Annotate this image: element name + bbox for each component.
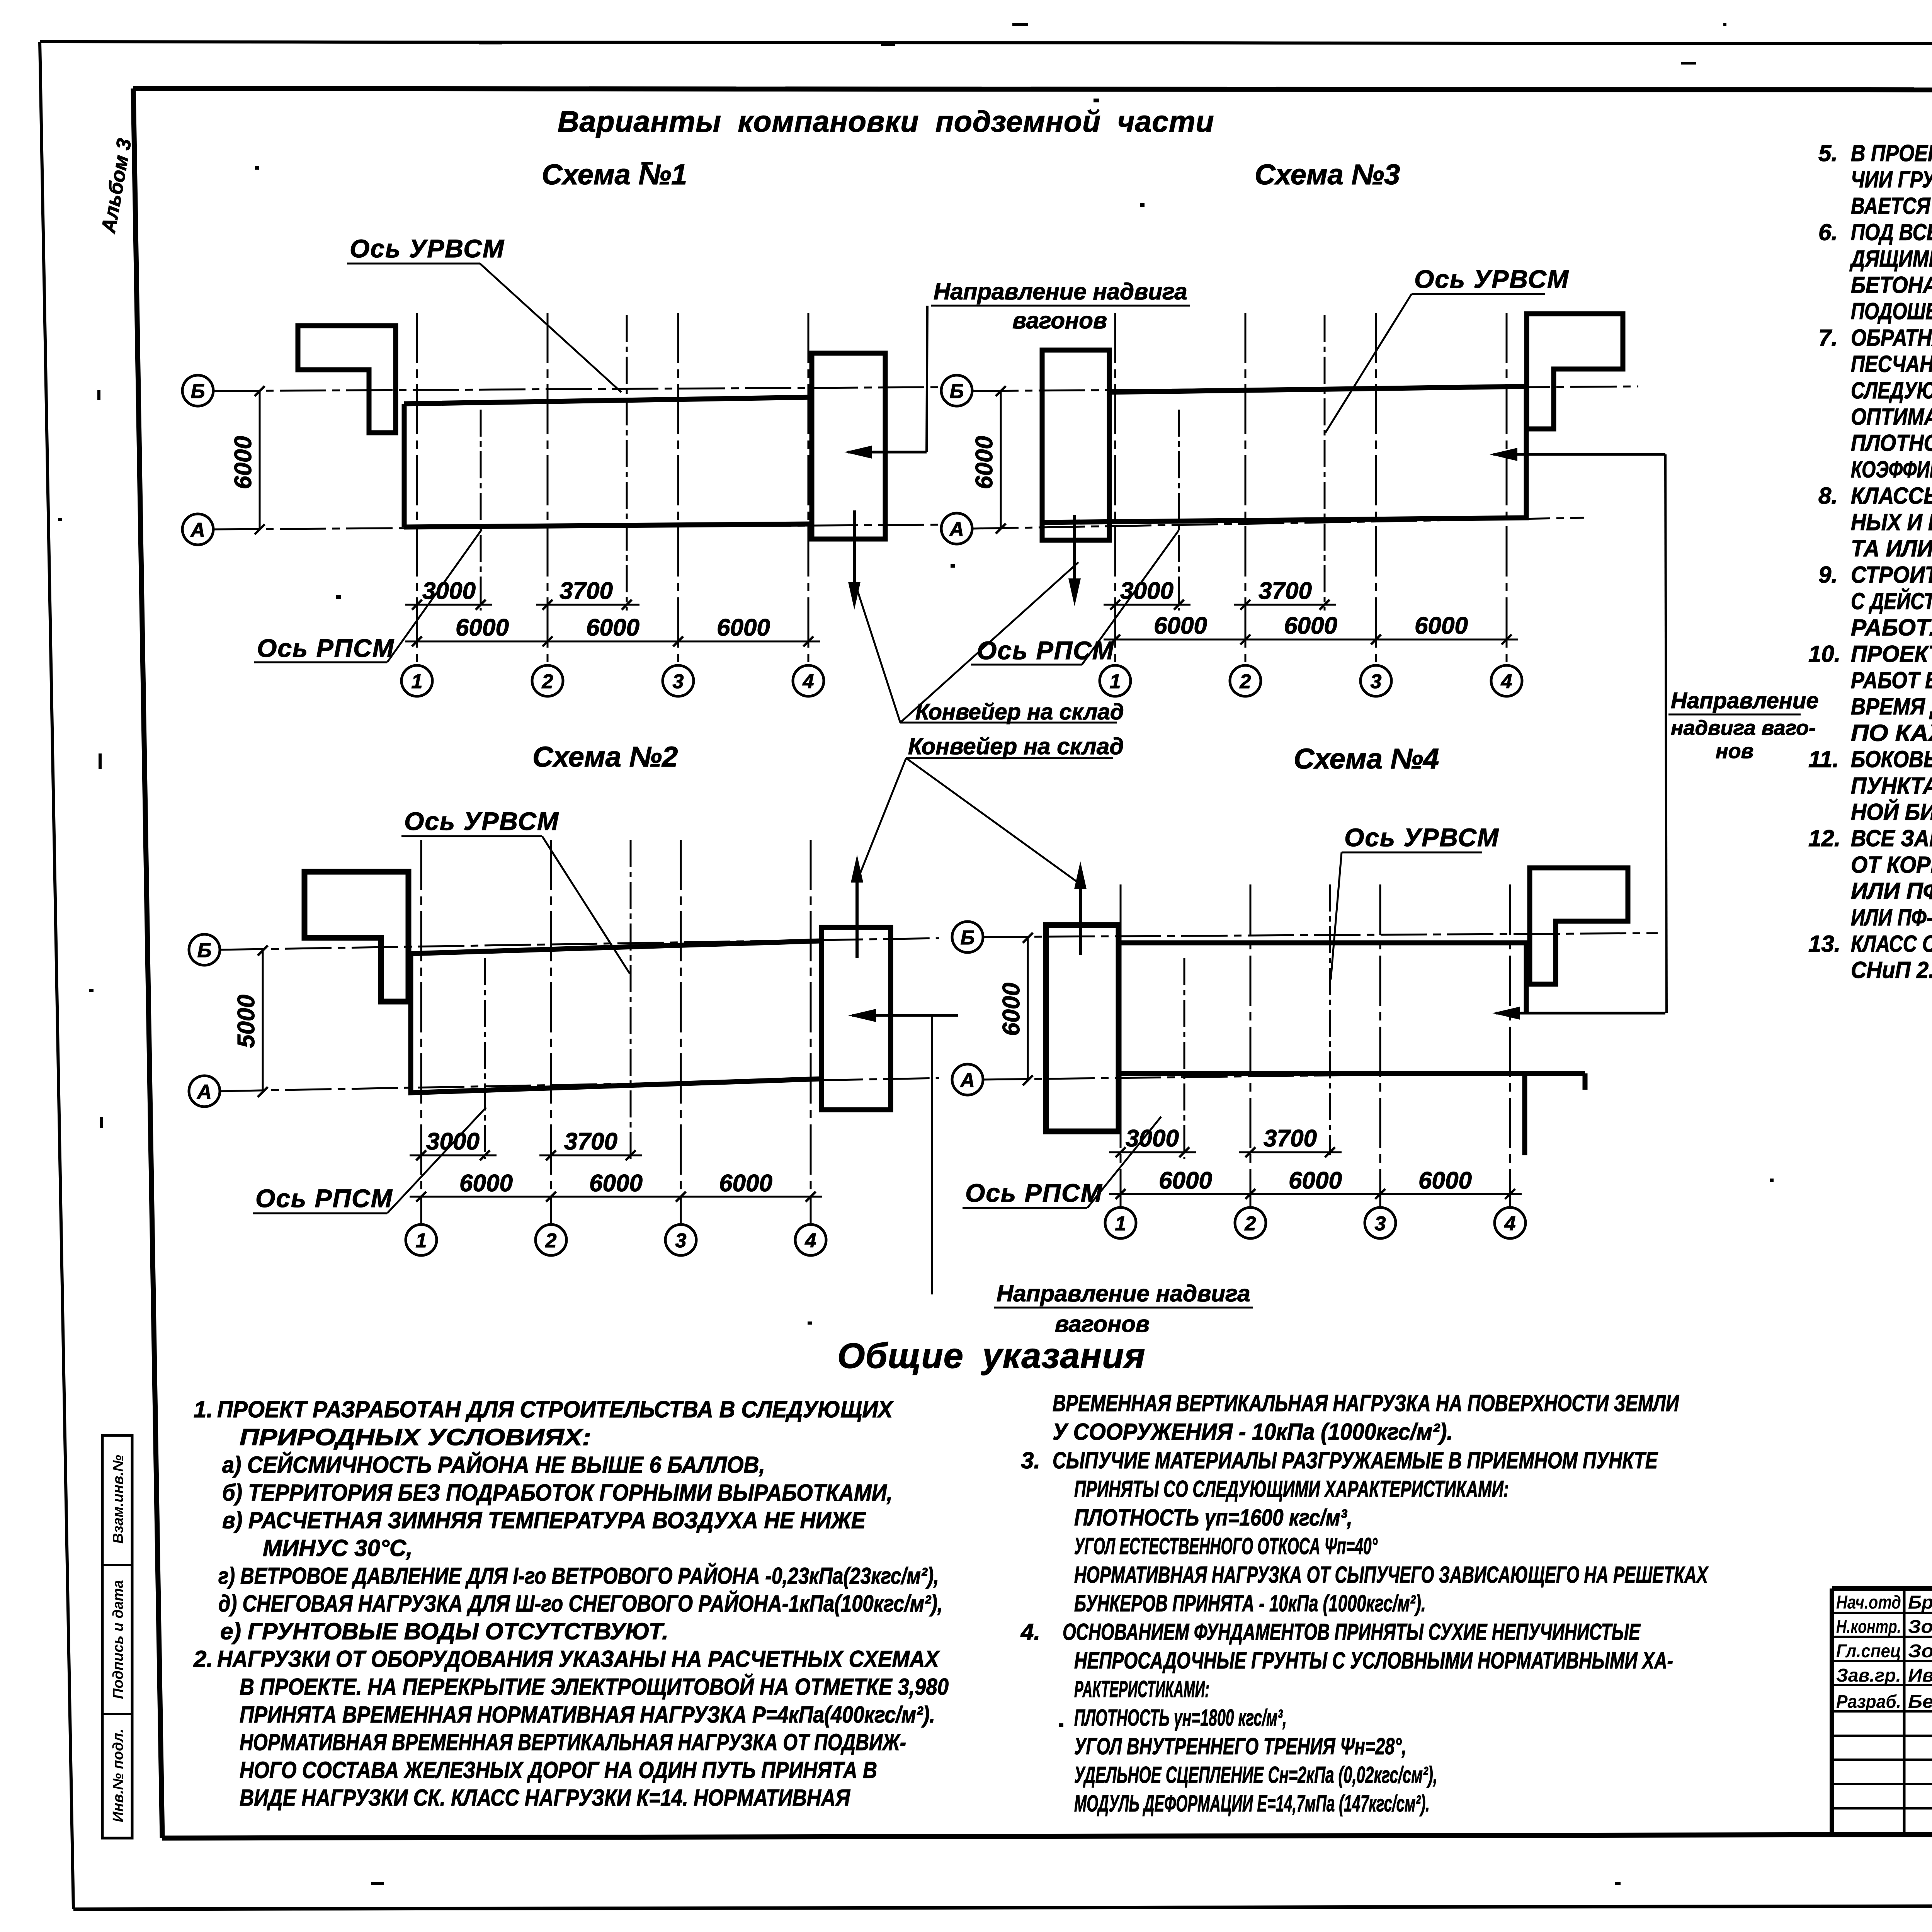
svg-text:МОДУЛЬ ДЕФОРМАЦИИ Е=14,7мПа (1: МОДУЛЬ ДЕФОРМАЦИИ Е=14,7мПа (147кгс/см²)… bbox=[1074, 1791, 1430, 1816]
svg-text:6000: 6000 bbox=[230, 436, 257, 489]
scheme 3 column circle 2 bbox=[1230, 665, 1261, 696]
drawing frame bottom bbox=[162, 1833, 1932, 1838]
svg-text:3700: 3700 bbox=[1264, 1125, 1317, 1152]
svg-text:С ДЕЙСТВУЮЩИМИ ПРАВИЛАМИ ПРОИЗ: С ДЕЙСТВУЮЩИМИ ПРАВИЛАМИ ПРОИЗВОДСТВА И … bbox=[1851, 588, 1932, 614]
svg-text:ДЯЩИМИСЯ В ЗЕМЛЕ, ПРЕДУСМОТРЕТ: ДЯЩИМИСЯ В ЗЕМЛЕ, ПРЕДУСМОТРЕТЬ БЕТОННУЮ… bbox=[1849, 246, 1932, 272]
svg-text:е) ГРУНТОВЫЕ ВОДЫ ОТСУТСТВУЮТ.: е) ГРУНТОВЫЕ ВОДЫ ОТСУТСТВУЮТ. bbox=[220, 1618, 668, 1644]
scheme 4 vertical dim 6000 bbox=[1027, 938, 1029, 1080]
svg-text:д) СНЕГОВАЯ НАГРУЗКА ДЛЯ Ш-го: д) СНЕГОВАЯ НАГРУЗКА ДЛЯ Ш-го СНЕГОВОГО … bbox=[218, 1590, 943, 1617]
scheme 4 column line 4 bbox=[1509, 884, 1511, 1209]
scheme 2 column line 1 bbox=[420, 840, 422, 1226]
title block signature table rows bbox=[1832, 1612, 1932, 1614]
svg-text:8.: 8. bbox=[1818, 483, 1838, 509]
scheme 3 axis A line bbox=[972, 518, 1584, 529]
scheme 1 axis B circle bbox=[182, 375, 213, 406]
title block outline bbox=[1832, 1586, 1932, 1591]
scheme 4 column circle 4 bbox=[1495, 1207, 1526, 1238]
svg-text:1.: 1. bbox=[194, 1396, 213, 1422]
svg-text:ПОДОШВЫ КОНСТРУКЦИЙ НА 100мм В: ПОДОШВЫ КОНСТРУКЦИЙ НА 100мм В КАЖДУЮ СТ… bbox=[1851, 298, 1932, 324]
svg-text:1: 1 bbox=[1115, 1213, 1126, 1235]
svg-text:НОРМАТИВНАЯ НАГРУЗКА ОТ СЫПУЧЕ: НОРМАТИВНАЯ НАГРУЗКА ОТ СЫПУЧЕГО ЗАВИСАЮ… bbox=[1074, 1562, 1709, 1588]
conveyor leader to scheme 1 bbox=[857, 590, 900, 723]
svg-text:РАКТЕРИСТИКАМИ:: РАКТЕРИСТИКАМИ: bbox=[1074, 1676, 1209, 1702]
svg-text:Б: Б bbox=[191, 380, 205, 403]
svg-text:3700: 3700 bbox=[1259, 578, 1312, 604]
scheme 2 column circle 3 bbox=[665, 1225, 696, 1255]
svg-text:вагонов: вагонов bbox=[1012, 308, 1107, 333]
svg-text:Ось УРВСМ: Ось УРВСМ bbox=[1414, 265, 1569, 293]
svg-text:6000: 6000 bbox=[719, 1170, 772, 1197]
scheme 4 bottom-right step bbox=[1522, 1073, 1527, 1155]
svg-text:6000: 6000 bbox=[1159, 1167, 1212, 1194]
svg-text:ВИДЕ НАГРУЗКИ СК. КЛАСС НАГРУЗ: ВИДЕ НАГРУЗКИ СК. КЛАСС НАГРУЗКИ К=14. Н… bbox=[240, 1785, 850, 1811]
scheme 4 axis B line bbox=[982, 933, 1658, 937]
scheme 1 URVSM axis (dash-dot) bbox=[626, 315, 628, 611]
svg-text:Ось РПСМ: Ось РПСМ bbox=[257, 634, 395, 662]
svg-text:Зав.гр.: Зав.гр. bbox=[1836, 1665, 1901, 1686]
scheme 2 axis B line bbox=[219, 938, 939, 950]
svg-text:СЛЕДУЮЩИХ ТРЕБОВАНИЙ:: СЛЕДУЮЩИХ ТРЕБОВАНИЙ: bbox=[1851, 377, 1932, 403]
scheme 2 conveyor arrow bbox=[852, 1014, 958, 1017]
svg-text:МИНУС 30°С,: МИНУС 30°С, bbox=[263, 1535, 413, 1561]
scheme 4 receiving box (left) bbox=[1046, 925, 1119, 1131]
scheme 1 conveyor arrow bbox=[848, 451, 927, 454]
scheme 3 URVSM axis (dash-dot) bbox=[1324, 315, 1326, 611]
svg-text:НОЙ БИТУМНОЙ ГРУНТОВКЕ.: НОЙ БИТУМНОЙ ГРУНТОВКЕ. bbox=[1851, 799, 1932, 825]
scheme 1 dim 3000 bbox=[405, 604, 492, 606]
svg-text:а) СЕЙСМИЧНОСТЬ РАЙОНА НЕ ВЫШЕ: а) СЕЙСМИЧНОСТЬ РАЙОНА НЕ ВЫШЕ 6 БАЛЛОВ, bbox=[222, 1452, 765, 1478]
svg-text:Схема №2: Схема №2 bbox=[532, 741, 678, 773]
scheme 3 wagon direction arrow (down) bbox=[1073, 515, 1076, 587]
svg-text:7.: 7. bbox=[1818, 325, 1838, 350]
svg-text:4: 4 bbox=[803, 670, 814, 693]
scheme 4 column line 2 bbox=[1250, 884, 1252, 1209]
scheme 1 axis B line bbox=[213, 387, 939, 391]
scheme 2 wagon direction arrow (up) bbox=[855, 874, 859, 958]
scheme 2 column circle 4 bbox=[795, 1225, 826, 1255]
scheme 1 vertical dim 6000 bbox=[259, 391, 261, 529]
scheme 3 axis A circle bbox=[941, 513, 972, 544]
sheet outer border left bbox=[40, 42, 73, 1909]
svg-text:Б: Б bbox=[950, 380, 964, 403]
scheme 2 dim 3000 bbox=[410, 1155, 497, 1156]
scheme 2 column line 2 bbox=[550, 840, 552, 1226]
scheme 3 column line 1 bbox=[1114, 313, 1116, 667]
svg-text:6000: 6000 bbox=[998, 983, 1025, 1036]
svg-text:Ось РПСМ: Ось РПСМ bbox=[965, 1179, 1103, 1207]
svg-text:В ПРОЕКТЕ. НА ПЕРЕКРЫТИЕ ЭЛЕКТ: В ПРОЕКТЕ. НА ПЕРЕКРЫТИЕ ЭЛЕКТРОЩИТОВОЙ … bbox=[240, 1673, 949, 1700]
svg-text:6000: 6000 bbox=[1289, 1167, 1342, 1194]
svg-text:А: А bbox=[949, 518, 964, 541]
svg-text:ПОД ВСЕМИ ЖЕЛЕЗОБЕТОННЫМИ МОНО: ПОД ВСЕМИ ЖЕЛЕЗОБЕТОННЫМИ МОНОЛИТНЫМИ КО… bbox=[1851, 219, 1932, 245]
scheme 2 column circle 1 bbox=[406, 1225, 437, 1255]
scheme 4 column circle 3 bbox=[1365, 1207, 1396, 1238]
svg-text:6.: 6. bbox=[1818, 219, 1838, 245]
svg-text:Иванова: Иванова bbox=[1908, 1665, 1932, 1686]
scheme 2 underground walls bbox=[411, 941, 821, 1093]
scheme 3 URVSM leader bbox=[1325, 294, 1412, 433]
svg-text:Разраб.: Разраб. bbox=[1836, 1692, 1901, 1712]
scheme 3 receiving box (left) bbox=[1042, 350, 1109, 540]
leader bottom direction label bbox=[931, 1015, 933, 1294]
scheme 1 receiving box (right) bbox=[812, 353, 885, 539]
scheme 3 column line 4 bbox=[1506, 313, 1508, 667]
svg-text:ПЛОТНОСТЬ γн=1800 кгс/м³,: ПЛОТНОСТЬ γн=1800 кгс/м³, bbox=[1074, 1705, 1287, 1731]
svg-text:4.: 4. bbox=[1020, 1619, 1040, 1645]
svg-text:ВАЕТСЯ В КОНКРЕТНОМ ПРОЕКТЕ С: ВАЕТСЯ В КОНКРЕТНОМ ПРОЕКТЕ С УЧЕТОМ ПРИ… bbox=[1851, 193, 1932, 219]
scheme 4 column line 3 bbox=[1379, 884, 1381, 1209]
scheme 3 axis B line bbox=[972, 386, 1638, 391]
svg-text:УДЕЛЬНОЕ СЦЕПЛЕНИЕ Сн=2кПа (0,: УДЕЛЬНОЕ СЦЕПЛЕНИЕ Сн=2кПа (0,02кгс/см²)… bbox=[1074, 1762, 1437, 1788]
scheme 2 RPSM leader bbox=[387, 1107, 486, 1213]
svg-text:6000: 6000 bbox=[456, 614, 509, 641]
svg-text:3700: 3700 bbox=[564, 1128, 617, 1155]
svg-text:Схема №3: Схема №3 bbox=[1255, 158, 1400, 190]
svg-text:ТА ИЛИ УКАЗАНЫ В СООТВЕТСТВУЮЩ: ТА ИЛИ УКАЗАНЫ В СООТВЕТСТВУЮЩИХ ЛИСТАХ … bbox=[1851, 535, 1932, 561]
svg-text:КЛАСС ОТВЕТСТВЕННОСТИ СООРУЖЕН: КЛАСС ОТВЕТСТВЕННОСТИ СООРУЖЕНИЯ В СООТВ… bbox=[1851, 931, 1932, 957]
scheme 1 dim 3700 bbox=[536, 604, 639, 606]
svg-text:Общие указания: Общие указания bbox=[837, 1336, 1146, 1376]
svg-text:6000: 6000 bbox=[1284, 612, 1337, 639]
svg-text:БОКОВЫЕ ПОВЕРХНОСТИ СТЕН ПОДЗЕ: БОКОВЫЕ ПОВЕРХНОСТИ СТЕН ПОДЗЕМНОЙ ЧАСТИ… bbox=[1851, 746, 1932, 772]
scheme 1 RPSM axis (dash-dot) bbox=[480, 410, 482, 611]
svg-text:А: А bbox=[190, 519, 205, 541]
scheme 4 building L-outline top-right bbox=[1530, 868, 1628, 984]
svg-text:6000: 6000 bbox=[589, 1170, 643, 1197]
sheet outer border bottom bbox=[73, 1905, 1932, 1909]
svg-text:НОГО СОСТАВА ЖЕЛЕЗНЫХ ДОРОГ НА: НОГО СОСТАВА ЖЕЛЕЗНЫХ ДОРОГ НА ОДИН ПУТЬ… bbox=[240, 1757, 877, 1783]
svg-text:Ось УРВСМ: Ось УРВСМ bbox=[1344, 823, 1499, 852]
scheme 1 axis A line bbox=[213, 525, 939, 529]
scheme 4 column circle 1 bbox=[1105, 1207, 1136, 1238]
svg-text:ПЛОТНОСТЬ СКЕЛЕТА ПОСЛЕ УПЛОТН: ПЛОТНОСТЬ СКЕЛЕТА ПОСЛЕ УПЛОТНЕНИЯ γск=1… bbox=[1851, 430, 1932, 456]
svg-text:3: 3 bbox=[1375, 1213, 1386, 1235]
svg-text:10.: 10. bbox=[1808, 641, 1840, 667]
svg-text:4: 4 bbox=[1501, 670, 1512, 693]
scheme 2 dim 3700 bbox=[539, 1155, 642, 1156]
svg-text:РАБОТ В ЗИМНЕЕ ВРЕМЯ. ПРИ ВЫПО: РАБОТ В ЗИМНЕЕ ВРЕМЯ. ПРИ ВЫПОЛНЕНИИ РАБ… bbox=[1851, 667, 1932, 693]
leader top direction label bbox=[927, 306, 927, 452]
scheme 1 URVSM leader bbox=[480, 264, 621, 392]
svg-text:6000: 6000 bbox=[1418, 1167, 1472, 1194]
svg-text:КОЭФФИЦИЕНТ СТАНДАРТНОГО УПЛОТ: КОЭФФИЦИЕНТ СТАНДАРТНОГО УПЛОТНЕНИЯ = 0,… bbox=[1851, 456, 1932, 482]
svg-text:ПЕСЧАНЫМ ГРУНТОМ ПОСЛОЙНО С УП: ПЕСЧАНЫМ ГРУНТОМ ПОСЛОЙНО С УПЛОТНЕНИЕМ … bbox=[1851, 351, 1932, 377]
svg-text:Ось УРВСМ: Ось УРВСМ bbox=[404, 807, 559, 835]
scheme 3 RPSM leader bbox=[1082, 530, 1179, 665]
conveyor leader to scheme 3 bbox=[900, 562, 1078, 723]
scheme 4 underground walls bbox=[1119, 943, 1585, 1090]
svg-text:4: 4 bbox=[805, 1230, 816, 1252]
drawing frame top bbox=[133, 88, 1932, 90]
svg-text:ИЛИ ПФ-020.: ИЛИ ПФ-020. bbox=[1851, 905, 1932, 930]
svg-text:Направление: Направление bbox=[1671, 688, 1819, 713]
scheme 2 receiving box (right) bbox=[821, 927, 891, 1110]
svg-text:Гл.спец: Гл.спец bbox=[1836, 1641, 1901, 1662]
scheme 4 RPSM axis (dash-dot) bbox=[1184, 958, 1185, 1159]
scheme 4 dim row 6000x3 bbox=[1109, 1193, 1522, 1195]
scheme 3 building L-outline top-right bbox=[1527, 314, 1623, 429]
svg-text:ПРИРОДНЫХ УСЛОВИЯХ:: ПРИРОДНЫХ УСЛОВИЯХ: bbox=[240, 1424, 591, 1450]
svg-text:Ось УРВСМ: Ось УРВСМ bbox=[350, 234, 505, 263]
svg-text:3700: 3700 bbox=[560, 578, 613, 604]
svg-text:У СООРУЖЕНИЯ - 10кПа (1000кгс/: У СООРУЖЕНИЯ - 10кПа (1000кгс/м²). bbox=[1053, 1419, 1453, 1445]
svg-text:Конвейер на склад: Конвейер на склад bbox=[915, 699, 1124, 724]
svg-text:СЫПУЧИЕ МАТЕРИАЛЫ РАЗГРУЖАЕМЫЕ: СЫПУЧИЕ МАТЕРИАЛЫ РАЗГРУЖАЕМЫЕ В ПРИЕМНО… bbox=[1053, 1447, 1658, 1473]
svg-text:2.: 2. bbox=[193, 1646, 213, 1672]
title block signature table columns bbox=[1903, 1588, 1906, 1833]
scheme 1 column circle 1 bbox=[401, 665, 432, 696]
svg-text:ОБРАТНАЯ ЗАСЫПКА ПАЗУХ КОТЛОВА: ОБРАТНАЯ ЗАСЫПКА ПАЗУХ КОТЛОВАНА ДОЛЖНА … bbox=[1851, 325, 1932, 350]
svg-text:СНиП 2.01.07-85 ПРИНЯТ Ш.: СНиП 2.01.07-85 ПРИНЯТ Ш. bbox=[1851, 957, 1932, 983]
svg-text:б) ТЕРРИТОРИЯ БЕЗ ПОДРАБОТОК Г: б) ТЕРРИТОРИЯ БЕЗ ПОДРАБОТОК ГОРНЫМИ ВЫР… bbox=[222, 1480, 893, 1505]
scheme 2 axis A circle bbox=[189, 1076, 220, 1107]
svg-text:ПРОЕКТ РАЗРАБОТАН ДЛЯ СТРОИТЕЛ: ПРОЕКТ РАЗРАБОТАН ДЛЯ СТРОИТЕЛЬСТВА В СЛ… bbox=[217, 1396, 894, 1422]
scheme 3 column line 3 bbox=[1375, 313, 1377, 667]
svg-text:ПО КАЖДОМУ ВИДУ РАБОТ.: ПО КАЖДОМУ ВИДУ РАБОТ. bbox=[1851, 720, 1932, 746]
svg-text:ВСЕ ЗАКЛАДНЫЕ И СОЕДИНИТЕЛЬНЫЕ: ВСЕ ЗАКЛАДНЫЕ И СОЕДИНИТЕЛЬНЫЕ ИЗДЕЛИЯ З… bbox=[1851, 825, 1932, 851]
svg-text:1: 1 bbox=[416, 1230, 427, 1252]
svg-text:в) РАСЧЕТНАЯ ЗИМНЯЯ ТЕМПЕРАТУР: в) РАСЧЕТНАЯ ЗИМНЯЯ ТЕМПЕРАТУРА ВОЗДУХА … bbox=[222, 1507, 866, 1533]
scheme 2 building L-outline top-left bbox=[304, 872, 408, 1002]
svg-text:УГОЛ ЕСТЕСТВЕННОГО ОТКОСА Ψп=4: УГОЛ ЕСТЕСТВЕННОГО ОТКОСА Ψп=40° bbox=[1074, 1533, 1378, 1559]
scheme 4 column circle 2 bbox=[1235, 1207, 1266, 1238]
svg-text:5.: 5. bbox=[1818, 140, 1838, 166]
svg-text:ЧИИ ГРУНТОВЫХ ВОД ГИДРОИЗОЛЯЦИ: ЧИИ ГРУНТОВЫХ ВОД ГИДРОИЗОЛЯЦИЯ ПОДЗЕМНО… bbox=[1851, 166, 1932, 192]
svg-text:13.: 13. bbox=[1808, 931, 1840, 957]
scheme 3 column line 2 bbox=[1245, 313, 1247, 667]
scheme 1 column line 1 bbox=[416, 313, 418, 667]
scheme 1 wagon direction arrow (down) bbox=[853, 510, 856, 590]
scheme 1 column circle 2 bbox=[532, 665, 563, 696]
scheme 1 column circle 4 bbox=[793, 665, 824, 696]
drawing frame left bbox=[133, 88, 162, 1838]
scheme 1 dim row 6000x3 bbox=[405, 641, 820, 643]
scheme 2 dim row 6000x3 bbox=[410, 1196, 822, 1198]
scheme 4 axis B circle bbox=[952, 922, 983, 952]
svg-text:3: 3 bbox=[675, 1230, 687, 1252]
scan noise bbox=[479, 41, 502, 44]
scheme 2 URVSM leader bbox=[542, 836, 630, 974]
scheme 3 dim 3000 bbox=[1104, 604, 1190, 606]
svg-text:Нач.отд: Нач.отд bbox=[1836, 1592, 1901, 1613]
leader right direction label (long vertical) bbox=[1665, 454, 1667, 1013]
scheme 2 URVSM axis (dash-dot) bbox=[630, 840, 632, 1159]
svg-text:Б: Б bbox=[961, 927, 975, 949]
scheme 1 underground walls bbox=[404, 397, 812, 527]
svg-text:РАБОТ.: РАБОТ. bbox=[1851, 615, 1932, 641]
svg-text:БЕТОНА КЛАССА В3,5 ТОЛЩИНОЙ 10: БЕТОНА КЛАССА В3,5 ТОЛЩИНОЙ 100мм, ПРЕВЫ… bbox=[1851, 272, 1932, 298]
svg-text:Взам.инв.№: Взам.инв.№ bbox=[110, 1455, 126, 1544]
svg-text:2: 2 bbox=[1245, 1213, 1256, 1235]
scheme 1 column line 4 bbox=[808, 313, 810, 667]
scheme 2 column line 4 bbox=[810, 840, 812, 1226]
svg-text:Конвейер на склад: Конвейер на склад bbox=[908, 733, 1124, 759]
scheme 2 column circle 2 bbox=[536, 1225, 566, 1255]
svg-text:Инв.№ подл.: Инв.№ подл. bbox=[110, 1729, 126, 1822]
svg-text:В ПРОЕКТЕ ПРИВЕДЕН ПРИМЕР УСТР: В ПРОЕКТЕ ПРИВЕДЕН ПРИМЕР УСТРОЙСТВА ГИД… bbox=[1851, 140, 1932, 166]
svg-text:6000: 6000 bbox=[971, 436, 998, 489]
svg-text:6000: 6000 bbox=[586, 614, 639, 641]
svg-text:2: 2 bbox=[542, 670, 553, 693]
svg-text:4: 4 bbox=[1504, 1213, 1516, 1235]
svg-text:Бродский: Бродский bbox=[1908, 1592, 1932, 1613]
svg-text:3: 3 bbox=[1371, 670, 1382, 693]
svg-text:2: 2 bbox=[1240, 670, 1251, 693]
scheme 3 vertical dim 6000 bbox=[1000, 391, 1002, 529]
scheme 2 column line 3 bbox=[680, 840, 682, 1226]
svg-text:Подпись и дата: Подпись и дата bbox=[110, 1580, 126, 1699]
svg-text:Схема №4: Схема №4 bbox=[1294, 743, 1439, 775]
svg-text:Ось РПСМ: Ось РПСМ bbox=[977, 636, 1114, 665]
svg-text:Схема №1: Схема №1 bbox=[542, 158, 687, 190]
scheme 3 column circle 4 bbox=[1491, 665, 1522, 696]
svg-text:ОТ КОРРОЗИИ ЛАКОКРАСОЧНЫМ ПОКР: ОТ КОРРОЗИИ ЛАКОКРАСОЧНЫМ ПОКРЫТИЕМ: ЭМА… bbox=[1851, 852, 1932, 878]
svg-text:6000: 6000 bbox=[1415, 612, 1468, 639]
sheet outer border top bbox=[40, 42, 1932, 44]
svg-text:ОПТИМАЛЬНАЯ ВЛАЖНОСТЬ 8...12%,: ОПТИМАЛЬНАЯ ВЛАЖНОСТЬ 8...12%, bbox=[1851, 404, 1932, 430]
svg-text:НЕПРОСАДОЧНЫЕ ГРУНТЫ С УСЛОВНЫ: НЕПРОСАДОЧНЫЕ ГРУНТЫ С УСЛОВНЫМИ НОРМАТИ… bbox=[1074, 1648, 1673, 1673]
scheme 2 axis B circle bbox=[189, 934, 220, 965]
svg-text:КЛАССЫ БЕТОНА И ХАРАКТЕРИСТИКИ: КЛАССЫ БЕТОНА И ХАРАКТЕРИСТИКИ СТАЛЕЙ ДЛ… bbox=[1851, 483, 1932, 509]
svg-text:3.: 3. bbox=[1021, 1447, 1040, 1473]
svg-text:6000: 6000 bbox=[459, 1170, 513, 1197]
scheme 3 column circle 3 bbox=[1361, 665, 1391, 696]
svg-text:ОСНОВАНИЕМ ФУНДАМЕНТОВ ПРИНЯТЫ: ОСНОВАНИЕМ ФУНДАМЕНТОВ ПРИНЯТЫ СУХИЕ НЕП… bbox=[1063, 1619, 1641, 1645]
svg-text:вагонов: вагонов bbox=[1055, 1311, 1150, 1337]
svg-text:А: А bbox=[196, 1081, 212, 1103]
scheme 3 column circle 1 bbox=[1100, 665, 1131, 696]
svg-text:1: 1 bbox=[412, 670, 423, 693]
scheme 3 conveyor arrow bbox=[1493, 453, 1665, 456]
scheme 4 URVSM leader bbox=[1331, 852, 1342, 980]
svg-text:ИЛИ ПФ-133 В ДВА СЛОЯ ПО СЛОЮ: ИЛИ ПФ-133 В ДВА СЛОЯ ПО СЛОЮ ГРУНТОВКИ … bbox=[1851, 878, 1932, 904]
svg-text:1: 1 bbox=[1110, 670, 1121, 693]
svg-text:Направление надвига: Направление надвига bbox=[934, 279, 1187, 304]
svg-text:г) ВЕТРОВОЕ ДАВЛЕНИЕ ДЛЯ I-го: г) ВЕТРОВОЕ ДАВЛЕНИЕ ДЛЯ I-го ВЕТРОВОГО … bbox=[218, 1563, 939, 1589]
svg-text:Зорин: Зорин bbox=[1908, 1617, 1932, 1637]
svg-text:СТРОИТЕЛЬНЫЕ РАБОТЫ ДОЛЖНЫ ВЫП: СТРОИТЕЛЬНЫЕ РАБОТЫ ДОЛЖНЫ ВЫПОЛНЯТЬСЯ В… bbox=[1851, 562, 1932, 588]
svg-text:6000: 6000 bbox=[1154, 612, 1207, 639]
svg-text:12.: 12. bbox=[1808, 825, 1840, 851]
svg-text:ВРЕМЕННАЯ ВЕРТИКАЛЬНАЯ НАГРУЗК: ВРЕМЕННАЯ ВЕРТИКАЛЬНАЯ НАГРУЗКА НА ПОВЕР… bbox=[1053, 1390, 1679, 1416]
svg-text:5000: 5000 bbox=[233, 995, 260, 1048]
svg-text:ПЛОТНОСТЬ γп=1600 кгс/м³,: ПЛОТНОСТЬ γп=1600 кгс/м³, bbox=[1074, 1505, 1352, 1531]
scheme 1 building L-outline top-left bbox=[298, 326, 396, 433]
svg-text:11.: 11. bbox=[1808, 747, 1839, 772]
svg-text:НЫХ И БЕТОННЫХ КОНСТРУКЦИЙ ПРИ: НЫХ И БЕТОННЫХ КОНСТРУКЦИЙ ПРИВЕДЕНЫ НА … bbox=[1851, 509, 1932, 535]
scheme 4 wagon direction arrow (up) bbox=[1079, 881, 1082, 955]
svg-text:Варианты компановки подзем: Варианты компановки подземной части bbox=[558, 105, 1214, 138]
scheme 2 axis A line bbox=[219, 1078, 939, 1091]
svg-text:Белан: Белан bbox=[1908, 1692, 1932, 1712]
svg-text:А: А bbox=[959, 1069, 975, 1092]
conveyor leader to scheme 2 bbox=[857, 758, 906, 880]
scheme 3 underground walls bbox=[1042, 386, 1526, 522]
svg-text:Н.контр.: Н.контр. bbox=[1836, 1617, 1901, 1637]
scheme 4 axis A line bbox=[982, 1072, 1584, 1080]
svg-text:ПРОЕКТ РАЗРАБОТАН БЕЗ УЧЕТА ТР: ПРОЕКТ РАЗРАБОТАН БЕЗ УЧЕТА ТРЕБОВАНИЙ Н… bbox=[1851, 641, 1932, 667]
svg-text:9.: 9. bbox=[1818, 562, 1838, 588]
left margin stamp strip boxes bbox=[102, 1435, 132, 1838]
conveyor leader to scheme 4 bbox=[906, 758, 1081, 884]
scheme 3 RPSM axis (dash-dot) bbox=[1178, 410, 1180, 611]
svg-text:3: 3 bbox=[673, 670, 684, 693]
scheme 4 dim 3000 bbox=[1109, 1151, 1196, 1153]
svg-text:надвига ваго-: надвига ваго- bbox=[1671, 716, 1816, 740]
svg-text:Зорин: Зорин bbox=[1908, 1641, 1932, 1662]
svg-text:ПУНКТА ПОКРЫТЬ ГОРЯЧИМ БИТУМОМ: ПУНКТА ПОКРЫТЬ ГОРЯЧИМ БИТУМОМ ЗА 2 РАЗА… bbox=[1851, 773, 1932, 799]
scheme 3 dim row 6000x3 bbox=[1104, 639, 1518, 641]
svg-text:Б: Б bbox=[197, 939, 212, 962]
scheme 4 axis A circle bbox=[952, 1064, 983, 1095]
scheme 1 column line 3 bbox=[677, 313, 679, 667]
svg-text:ПРИНЯТА ВРЕМЕННАЯ НОРМАТИВНАЯ: ПРИНЯТА ВРЕМЕННАЯ НОРМАТИВНАЯ НАГРУЗКА Р… bbox=[240, 1702, 935, 1728]
svg-text:Ось РПСМ: Ось РПСМ bbox=[255, 1184, 393, 1213]
svg-text:НОРМАТИВНАЯ ВРЕМЕННАЯ ВЕРТИКАЛ: НОРМАТИВНАЯ ВРЕМЕННАЯ ВЕРТИКАЛЬНАЯ НАГРУ… bbox=[240, 1730, 906, 1755]
scheme 4 conveyor arrow bbox=[1496, 1012, 1665, 1015]
scheme 3 axis B circle bbox=[941, 375, 972, 406]
svg-text:БУНКЕРОВ ПРИНЯТА - 10кПа (1000: БУНКЕРОВ ПРИНЯТА - 10кПа (1000кгс/м²). bbox=[1074, 1590, 1426, 1616]
svg-text:Направление надвига: Направление надвига bbox=[997, 1281, 1250, 1306]
scheme 2 RPSM axis (dash-dot) bbox=[484, 958, 486, 1159]
svg-text:ПРИНЯТЫ СО СЛЕДУЮЩИМИ ХАРАКТЕР: ПРИНЯТЫ СО СЛЕДУЮЩИМИ ХАРАКТЕРИСТИКАМИ: bbox=[1074, 1476, 1509, 1502]
scheme 1 RPSM leader bbox=[387, 529, 482, 662]
svg-text:НАГРУЗКИ ОТ ОБОРУДОВАНИЯ УКАЗА: НАГРУЗКИ ОТ ОБОРУДОВАНИЯ УКАЗАНЫ НА РАСЧ… bbox=[217, 1646, 940, 1672]
svg-text:6000: 6000 bbox=[717, 614, 770, 641]
scheme 4 dim 3700 bbox=[1239, 1151, 1342, 1153]
scheme 3 dim 3700 bbox=[1234, 604, 1336, 606]
svg-text:ВРЕМЯ ДОЛЖНЫ СОБЛЮДАТЬСЯ СПЕЦИ: ВРЕМЯ ДОЛЖНЫ СОБЛЮДАТЬСЯ СПЕЦИАЛЬНЫЕ ТРЕ… bbox=[1851, 694, 1932, 719]
scheme 1 column line 2 bbox=[547, 313, 549, 667]
svg-text:2: 2 bbox=[545, 1230, 557, 1252]
scheme 4 RPSM leader bbox=[1087, 1117, 1161, 1208]
scheme 4 column line 1 bbox=[1120, 884, 1122, 1209]
svg-text:УГОЛ ВНУТРЕННЕГО ТРЕНИЯ Ψн=28°: УГОЛ ВНУТРЕННЕГО ТРЕНИЯ Ψн=28°, bbox=[1074, 1733, 1406, 1759]
scheme 1 column circle 3 bbox=[663, 665, 694, 696]
scheme 2 vertical dim 5000 bbox=[262, 951, 264, 1092]
scheme 4 URVSM axis (dash-dot) bbox=[1329, 884, 1331, 1155]
svg-text:нов: нов bbox=[1716, 740, 1753, 763]
scheme 1 axis A circle bbox=[182, 514, 213, 545]
